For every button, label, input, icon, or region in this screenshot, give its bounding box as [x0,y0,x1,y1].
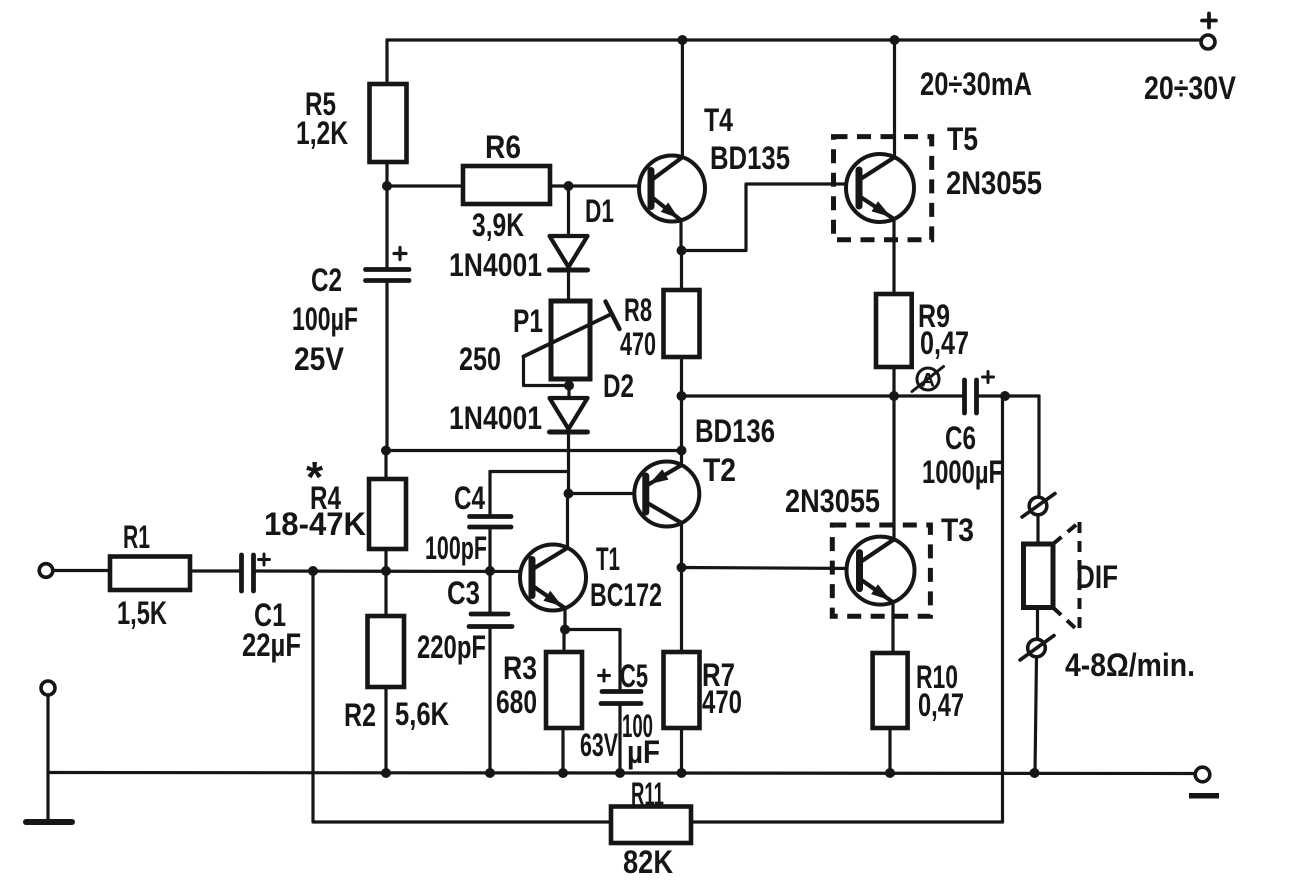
svg-text:D1: D1 [585,193,614,229]
svg-text:C5: C5 [620,658,648,694]
svg-text:20÷30V: 20÷30V [1144,70,1237,106]
svg-text:*: * [306,453,324,502]
svg-text:20÷30mA: 20÷30mA [920,66,1032,102]
svg-text:T5: T5 [947,121,978,157]
svg-text:T2: T2 [703,452,736,488]
svg-text:220pF: 220pF [417,629,486,665]
svg-text:82K: 82K [623,844,673,880]
svg-text:100µF: 100µF [292,301,358,337]
svg-text:1000µF: 1000µF [922,454,1003,490]
svg-text:25V: 25V [294,341,345,377]
svg-text:DIF: DIF [1076,559,1118,595]
svg-text:R1: R1 [123,519,150,555]
svg-text:T1: T1 [596,541,620,577]
svg-text:63V: 63V [580,727,618,763]
svg-text:1,2K: 1,2K [296,115,348,151]
svg-text:0,47: 0,47 [920,325,969,361]
svg-text:R3: R3 [503,650,537,686]
svg-text:T3: T3 [941,512,974,548]
svg-text:1N4001: 1N4001 [449,247,542,283]
svg-text:100pF: 100pF [425,530,487,566]
svg-text:C2: C2 [311,262,342,298]
svg-text:R2: R2 [344,697,376,733]
svg-text:R8: R8 [624,292,652,328]
svg-text:2N3055: 2N3055 [946,165,1042,201]
svg-text:250: 250 [459,341,501,377]
svg-text:470: 470 [702,684,742,720]
svg-text:µF: µF [627,734,660,770]
svg-text:R11: R11 [631,776,664,812]
svg-text:C3: C3 [447,575,480,611]
svg-text:470: 470 [620,326,656,362]
svg-text:5,6K: 5,6K [395,696,449,732]
svg-text:18-47K: 18-47K [264,506,366,542]
svg-text:BD136: BD136 [695,413,775,449]
svg-text:22µF: 22µF [242,627,301,663]
svg-text:P1: P1 [513,303,543,339]
svg-text:R6: R6 [485,129,521,165]
svg-text:T4: T4 [704,102,733,138]
svg-text:BC172: BC172 [590,577,662,613]
svg-text:680: 680 [496,684,537,720]
svg-text:D2: D2 [603,368,634,404]
svg-text:0,47: 0,47 [918,687,964,723]
svg-text:BD135: BD135 [710,140,790,176]
svg-text:1,5K: 1,5K [117,595,167,631]
svg-text:1N4001: 1N4001 [449,400,542,436]
svg-text:3,9K: 3,9K [472,207,524,243]
svg-text:C6: C6 [945,420,976,456]
svg-text:4-8Ω/min.: 4-8Ω/min. [1065,647,1195,683]
svg-text:C4: C4 [454,480,485,516]
svg-text:2N3055: 2N3055 [785,483,880,519]
